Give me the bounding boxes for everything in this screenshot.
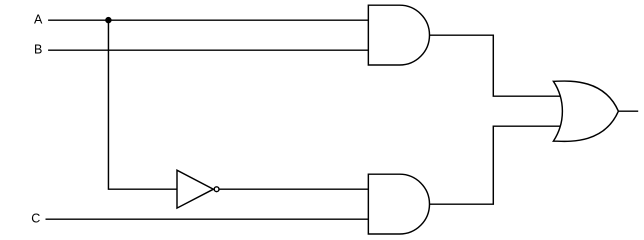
- svg-text:B: B: [34, 43, 42, 57]
- svg-text:C: C: [31, 212, 40, 226]
- svg-text:A: A: [34, 13, 43, 27]
